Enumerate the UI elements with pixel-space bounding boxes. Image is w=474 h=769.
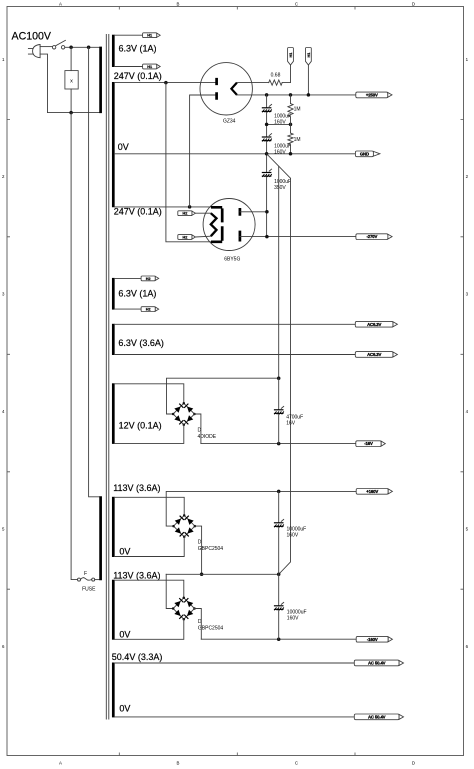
wire -16V line	[201, 443, 356, 445]
flag H2 winding bottom	[141, 307, 159, 312]
svg-text:4DIODE: 4DIODE	[198, 434, 217, 440]
wire 6.3V#1 bottom stub	[115, 66, 143, 68]
svg-text:AC6.3V: AC6.3V	[367, 322, 381, 327]
svg-text:16V: 16V	[286, 421, 296, 427]
resistor 0.68	[269, 73, 283, 86]
svg-text:AC 50.4V: AC 50.4V	[368, 661, 386, 666]
wire GZ34 plate2 lead down	[190, 95, 217, 207]
svg-text:113V (3.6A): 113V (3.6A)	[113, 483, 160, 493]
svg-text:-160V: -160V	[367, 637, 378, 642]
wire -270V rail	[240, 236, 356, 238]
svg-text:160V: 160V	[274, 150, 286, 156]
transformer core	[106, 35, 109, 720]
wire bridge2 left to +160V line	[166, 491, 356, 526]
svg-text:AC6.3V: AC6.3V	[367, 352, 381, 357]
secondary winding 6.3V (1A) #1	[112, 35, 115, 67]
wire to fuse	[71, 113, 78, 580]
svg-text:A: A	[59, 760, 62, 765]
label D 4DIODE	[198, 428, 217, 440]
junction plate1/cap column	[265, 210, 269, 214]
wire bottom rail to primary	[48, 112, 100, 114]
svg-text:B: B	[177, 1, 180, 6]
wire H1 right riser	[307, 65, 309, 95]
junction rail/1M column	[289, 93, 293, 97]
wire mid node link	[267, 123, 291, 125]
junction mid rail / cap B	[277, 573, 281, 577]
junction mid node left	[265, 123, 269, 127]
junction ground line / cap A	[277, 376, 281, 380]
label D GBPC2504 #1	[198, 540, 224, 552]
wire bridge2 right to mid rail	[195, 526, 202, 574]
wire 6.3V#1 top stub	[115, 34, 143, 36]
wire cap column upper	[266, 95, 268, 237]
junction rail/cap column	[265, 93, 269, 97]
transformer T1 primary winding upper	[99, 47, 102, 114]
resistor 1M upper	[288, 95, 301, 125]
svg-text:-270V: -270V	[367, 234, 378, 239]
capacitor 10000uF 160V #1	[274, 491, 306, 574]
svg-text:0V: 0V	[119, 704, 130, 714]
junction GND/cap column	[265, 152, 269, 156]
capacitor 4700uF 16V	[274, 378, 303, 443]
wire 113V#1 top stub	[115, 497, 185, 515]
svg-text:6BY5G: 6BY5G	[224, 257, 240, 263]
junction -160V / cap C	[277, 637, 281, 641]
svg-text:+250V: +250V	[366, 93, 378, 98]
flag H2 winding top	[141, 276, 159, 281]
capacitor 1000uF 160V #2	[262, 134, 291, 156]
svg-text:GND: GND	[360, 151, 369, 156]
varistor X1 box	[65, 71, 78, 89]
zone letters top	[59, 1, 415, 6]
svg-text:6.3V (1A): 6.3V (1A)	[118, 289, 156, 299]
transformer T1 primary winding lower	[99, 496, 102, 580]
svg-text:0.68: 0.68	[271, 73, 281, 79]
wire 12V bottom stub	[115, 425, 184, 444]
wire resistor to H1 riser	[282, 65, 290, 83]
wire bridge3 right to -160V line	[195, 609, 202, 640]
svg-text:H2: H2	[146, 277, 151, 281]
svg-text:6.3V (3.6A): 6.3V (3.6A)	[118, 338, 164, 348]
svg-text:A: A	[59, 1, 62, 6]
zone numbers left	[2, 57, 5, 649]
svg-text:AC 50.4V: AC 50.4V	[368, 714, 386, 719]
svg-text:6.3V (1A): 6.3V (1A)	[119, 44, 157, 54]
flag H2 tube lower	[178, 235, 196, 240]
flag -270V	[356, 234, 392, 240]
zone letters bottom	[59, 760, 415, 765]
wire H2 upper to heater	[195, 212, 210, 214]
wire X box top lead	[70, 47, 72, 70]
wire plug to switch	[40, 46, 52, 48]
wire 247V top to GZ34 plate	[115, 82, 217, 84]
wire GND diagonal jog	[267, 154, 291, 179]
capacitor 1000uF 350V	[262, 169, 291, 191]
svg-text:H2: H2	[182, 212, 187, 216]
capacitor 10000uF 160V #2	[274, 574, 307, 639]
wire 113V#2 top stub	[115, 580, 184, 598]
wire H2 lower to heater	[195, 235, 210, 238]
flag H1 winding top	[143, 33, 161, 38]
wire AC6.3V line top	[115, 323, 356, 325]
svg-text:D: D	[412, 1, 415, 6]
wire plug bottom return	[40, 54, 47, 113]
wire bridge1 left to ground line	[167, 378, 279, 414]
svg-text:247V (0.1A): 247V (0.1A)	[114, 207, 162, 217]
wire GZ34 cathode to 0.68 resistor	[237, 82, 269, 84]
svg-text:12V (0.1A): 12V (0.1A)	[119, 421, 162, 431]
flag AC 50.4V bottom	[354, 714, 403, 720]
AC plug P1	[28, 45, 40, 58]
wire 6.3V#2 top stub	[115, 277, 142, 279]
flag AC6.3V bottom	[355, 352, 397, 358]
svg-text:1M: 1M	[294, 107, 301, 113]
flag AC6.3V top	[355, 321, 397, 327]
svg-text:x: x	[70, 78, 73, 84]
wire fuse to lower primary	[95, 579, 100, 581]
wire AC6.3V line bottom	[115, 354, 356, 356]
svg-text:FUSE: FUSE	[82, 587, 96, 593]
fuse F FUSE	[78, 571, 97, 593]
svg-text:C: C	[295, 1, 298, 6]
secondary winding 12V (0.1A)	[112, 383, 115, 444]
svg-text:350V: 350V	[274, 185, 286, 191]
svg-text:D: D	[412, 760, 415, 765]
svg-text:GZ34: GZ34	[223, 119, 236, 125]
junction top rail at lower-primary feed	[87, 46, 91, 50]
wire -160V line	[201, 638, 356, 640]
svg-text:F: F	[84, 571, 87, 577]
flag +250V	[356, 92, 392, 98]
secondary winding 50.4V (3.3A)	[112, 663, 115, 718]
svg-text:50.4V (3.3A): 50.4V (3.3A)	[112, 652, 163, 662]
svg-text:160V: 160V	[287, 616, 299, 622]
svg-text:247V (0.1A): 247V (0.1A)	[114, 71, 162, 81]
wire 247V top to 6BY5G lower cathode	[166, 83, 211, 242]
junction +160V / cap B	[277, 490, 281, 494]
label D GBPC2504 #2	[198, 619, 224, 631]
junction 247V top	[164, 81, 168, 85]
svg-text:H2: H2	[146, 308, 151, 312]
junction rail/H1 riser	[307, 93, 311, 97]
svg-text:H2: H2	[182, 235, 187, 239]
flag H1 winding bottom	[143, 64, 161, 69]
wire 247V bottom to 6BY5G upper cathode	[115, 206, 211, 208]
secondary winding 113V (3.6A) #1	[112, 497, 115, 557]
svg-text:+160V: +160V	[366, 489, 378, 494]
flag H2 tube upper	[178, 211, 196, 216]
wire 113V#1 0V stub	[115, 537, 185, 557]
wire 6BY5G plate1 lead	[240, 211, 267, 213]
wire switch to primary top	[65, 46, 100, 48]
wire ground bus x290	[279, 178, 291, 574]
svg-text:0V: 0V	[119, 629, 130, 639]
rectifier tube V2 6BY5G	[203, 199, 255, 263]
secondary winding 113V (3.6A) #2	[112, 580, 115, 640]
junction mid node right	[289, 123, 293, 127]
wire 12V top stub	[115, 384, 184, 404]
flag -160V	[356, 636, 392, 642]
svg-text:C: C	[295, 760, 298, 765]
junction bottom rail / X box	[69, 111, 73, 115]
flag AC 50.4V top	[354, 660, 403, 666]
junction -270V/cap column	[265, 235, 269, 239]
flag GND	[355, 151, 380, 157]
wire 0V to GND flag	[115, 153, 356, 155]
wire ground bus x279 upper	[278, 166, 280, 378]
wire +250V rail	[237, 94, 356, 96]
junction top rail at X box	[69, 46, 73, 50]
svg-text:H1: H1	[147, 34, 152, 38]
wire 113V#2 0V stub	[115, 619, 184, 639]
bridge rectifier D 4DIODE	[172, 402, 196, 426]
wire mid rail to bridge3 left	[166, 574, 173, 608]
secondary winding 6.3V (1A) #2	[112, 278, 115, 310]
svg-text:-16V: -16V	[364, 441, 373, 446]
wire 6.3V#2 bottom stub	[115, 308, 142, 310]
flag H1 vertical left	[288, 48, 294, 66]
capacitor 1000uF 160V #1	[262, 104, 291, 125]
wire mid rail	[166, 573, 279, 575]
wire feed to lower primary	[89, 47, 100, 497]
flag H1 vertical right	[306, 48, 312, 66]
secondary winding 247V-0-247V	[112, 82, 115, 207]
rectifier tube V1 GZ34	[200, 63, 252, 125]
wire bridge1 right to -16V line	[195, 414, 201, 444]
flag -16V	[356, 441, 386, 447]
svg-text:H1: H1	[147, 65, 152, 69]
flag +160V	[356, 489, 392, 495]
svg-text:B: B	[177, 760, 180, 765]
resistor 1M lower	[288, 124, 301, 153]
bridge rectifier D GBPC2504 #2	[172, 597, 196, 621]
svg-text:H1: H1	[307, 52, 311, 57]
svg-text:AC100V: AC100V	[12, 31, 52, 43]
svg-text:113V (3.6A): 113V (3.6A)	[113, 570, 160, 580]
wire AC50.4V line bottom	[115, 716, 355, 718]
junction -16V / cap A	[277, 442, 281, 446]
secondary winding 6.3V (3.6A)	[112, 324, 115, 355]
junction mid rail / bridge2	[200, 573, 204, 577]
junction 247V bottom / GZ34 plate2	[188, 205, 192, 209]
junction GND/1M column	[289, 152, 293, 156]
svg-text:1M: 1M	[294, 137, 301, 143]
svg-text:0V: 0V	[118, 142, 129, 152]
wire AC50.4V line top	[115, 662, 355, 664]
svg-text:160V: 160V	[287, 533, 299, 539]
wire X box bottom lead	[70, 89, 72, 113]
svg-text:H1: H1	[289, 52, 293, 57]
zone numbers right	[466, 57, 469, 649]
svg-text:0V: 0V	[119, 546, 130, 556]
switch S1	[52, 40, 65, 49]
bridge rectifier D GBPC2504 #1	[172, 514, 196, 538]
